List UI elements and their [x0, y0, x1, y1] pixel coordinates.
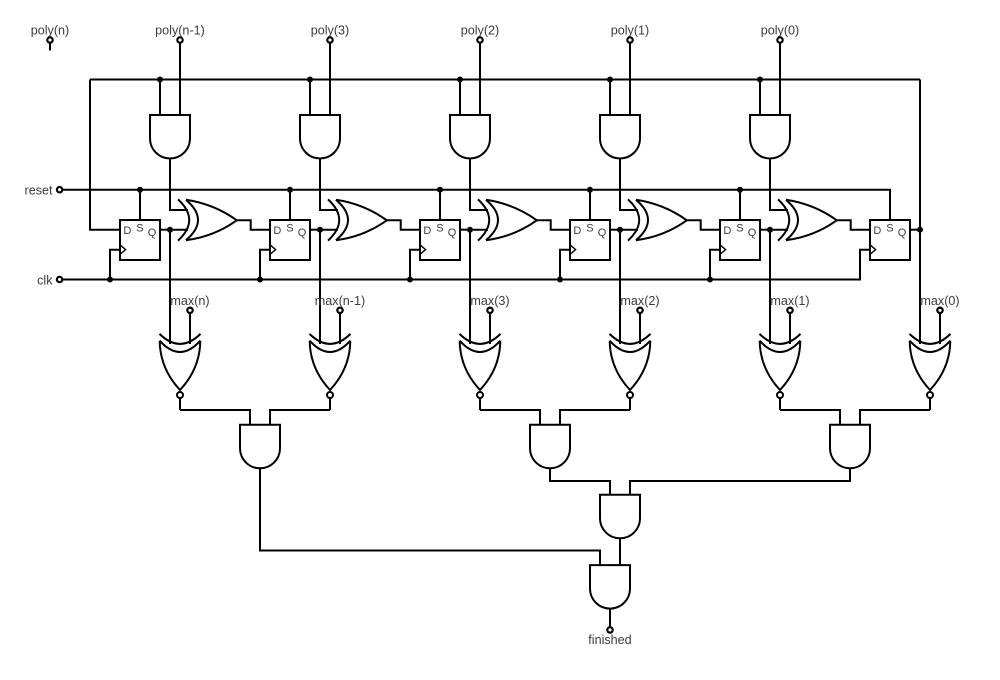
- svg-text:poly(3): poly(3): [311, 24, 350, 38]
- svg-text:max(n-1): max(n-1): [315, 294, 365, 308]
- svg-text:max(0): max(0): [920, 294, 959, 308]
- svg-text:finished: finished: [588, 633, 631, 647]
- svg-text:Q: Q: [448, 227, 457, 239]
- svg-text:Q: Q: [148, 227, 157, 239]
- svg-text:D: D: [123, 225, 131, 237]
- svg-text:D: D: [873, 225, 881, 237]
- svg-text:S: S: [136, 223, 143, 235]
- svg-text:S: S: [886, 223, 893, 235]
- svg-text:Q: Q: [598, 227, 607, 239]
- svg-text:S: S: [286, 223, 293, 235]
- svg-text:poly(1): poly(1): [611, 24, 650, 38]
- svg-text:poly(0): poly(0): [761, 24, 800, 38]
- svg-text:Q: Q: [748, 227, 757, 239]
- svg-text:max(n): max(n): [170, 294, 209, 308]
- svg-text:clk: clk: [37, 273, 53, 287]
- svg-text:max(3): max(3): [470, 294, 509, 308]
- svg-text:Q: Q: [298, 227, 307, 239]
- svg-text:D: D: [423, 225, 431, 237]
- svg-text:poly(n): poly(n): [31, 24, 70, 38]
- svg-text:D: D: [723, 225, 731, 237]
- svg-text:reset: reset: [25, 184, 53, 198]
- svg-text:Q: Q: [898, 227, 907, 239]
- svg-text:max(1): max(1): [770, 294, 809, 308]
- svg-text:D: D: [273, 225, 281, 237]
- svg-text:D: D: [573, 225, 581, 237]
- svg-text:max(2): max(2): [620, 294, 659, 308]
- svg-text:poly(2): poly(2): [461, 24, 500, 38]
- svg-text:poly(n-1): poly(n-1): [155, 24, 205, 38]
- svg-text:S: S: [736, 223, 743, 235]
- svg-text:S: S: [586, 223, 593, 235]
- svg-text:S: S: [436, 223, 443, 235]
